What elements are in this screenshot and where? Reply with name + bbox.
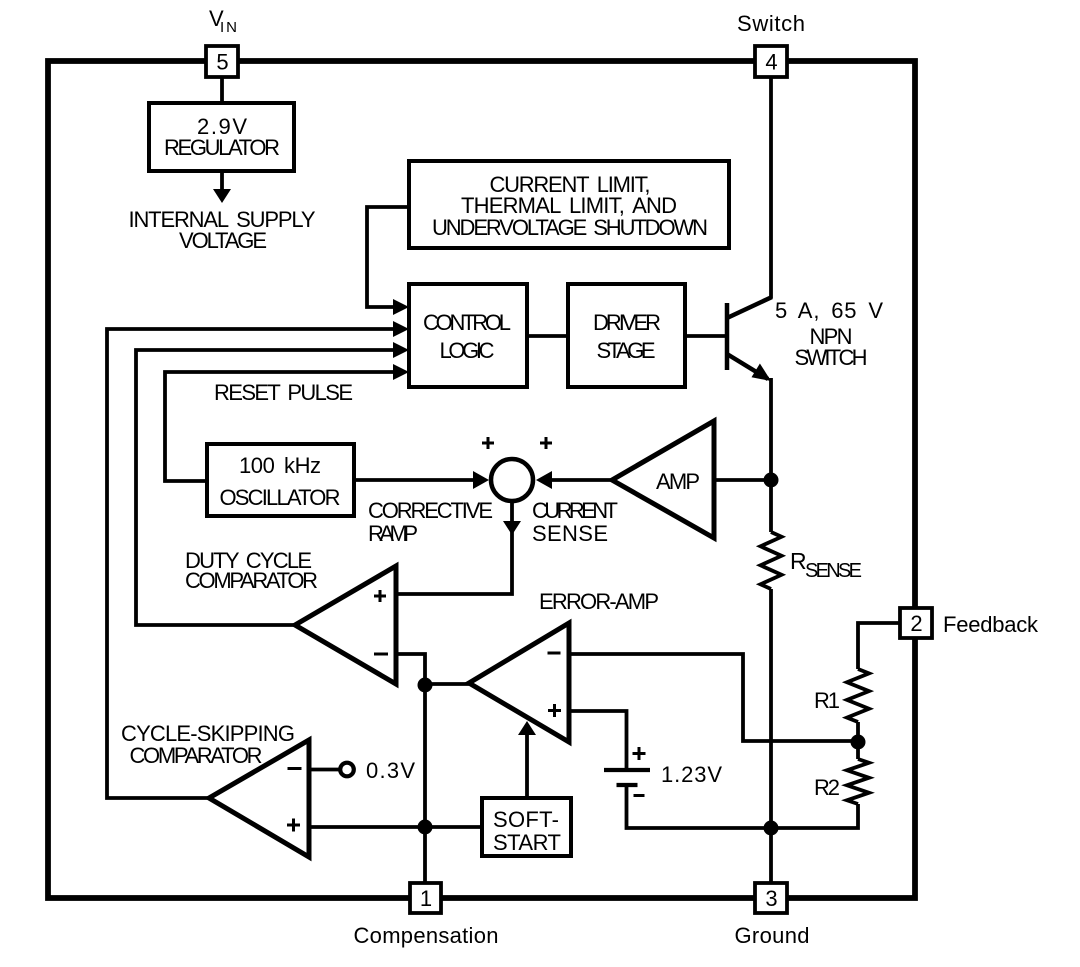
arrowhead into control logic 2 [393,321,409,337]
wire error-amp - input to R1 R2 node [569,654,858,741]
wire pin5 to regulator [220,77,224,103]
pin 2 Feedback box [900,608,932,638]
wire duty-cycle output to control logic arrow 3 [136,350,395,625]
resistor R2 zigzag [847,759,869,804]
transistor Q1 collector [727,297,772,318]
minus battery [634,794,645,797]
svg-text:SWITCH: SWITCH [795,345,868,370]
regulator U1 box [149,103,294,171]
wire control logic to driver stage [527,334,568,338]
svg-text:STAGE: STAGE [597,338,656,363]
wire oscillator to summing node [354,478,478,482]
svg-text:SENSE: SENSE [532,521,608,546]
wire cycle-skipping - input to 0.3V source [309,768,339,772]
op-amp error amp [469,623,569,742]
pin 5 VIN box [206,46,238,77]
svg-text:REGULATOR: REGULATOR [164,135,280,160]
transistor Q1 base bar [725,303,730,370]
wire node A down to pin1 [423,684,427,898]
svg-text:SENSE: SENSE [805,560,862,582]
oscillator box [207,444,354,516]
junction node amp-output/emitter [764,473,779,488]
junction node A error-amp output [418,678,433,693]
svg-text:COMPARATOR: COMPARATOR [185,568,318,593]
minus error-amp [548,652,561,655]
pin 4 Switch box [755,46,787,77]
op-amp AMP current sense amplifier [612,421,714,538]
svg-text:5: 5 [216,50,228,75]
transistor emitter arrowhead [752,364,772,382]
svg-text:START: START [493,830,561,855]
driver stage box [568,284,685,387]
wire battery minus to ground node [627,787,772,828]
wire error-amp + input to battery [569,711,627,768]
arrowhead oscillator into summing node [473,471,489,489]
summing node circle [491,459,533,501]
op-amp duty cycle comparator [295,566,396,684]
svg-text:4: 4 [765,50,777,75]
wire duty-cycle - input to node A [396,654,425,684]
battery 1.23V minus plate [617,783,638,787]
IC boundary border [48,61,915,898]
svg-text:SOFT-: SOFT- [493,807,559,832]
arrowhead amp into summing node [536,471,552,489]
svg-text:DRIVER: DRIVER [593,310,661,335]
svg-text:3: 3 [765,886,777,911]
current/thermal limit box [409,161,729,248]
svg-text:OSCILLATOR: OSCILLATOR [220,485,341,510]
junction node B feedback divider [851,735,866,750]
svg-text:Ground: Ground [735,923,810,948]
wire regulator to internal supply arrow [220,171,224,190]
wire emitter to amp-output node [769,378,773,480]
svg-text:Feedback: Feedback [943,612,1039,637]
svg-text:CURRENT: CURRENT [532,498,618,523]
svg-text:COMPARATOR: COMPARATOR [130,743,263,768]
wire cycle-skipping output to control logic arrow 2 [107,329,395,798]
svg-text:2: 2 [910,611,922,636]
svg-text:1.23V: 1.23V [661,762,722,787]
plus current sense input [540,442,552,445]
resistor R1 zigzag [847,669,869,722]
wire summing node down to duty-cycle + input [396,501,512,594]
svg-text:1: 1 [420,886,432,911]
svg-text:AMP: AMP [656,469,700,494]
svg-text:CONTROL: CONTROL [423,310,511,335]
plus error-amp [548,709,561,712]
wire pin2 to R1 top [858,623,900,669]
svg-text:100 kHz: 100 kHz [239,453,321,478]
junction node soft-start/compensation [418,820,433,835]
op-amp cycle-skipping comparator [209,740,309,857]
svg-text:UNDERVOLTAGE SHUTDOWN: UNDERVOLTAGE SHUTDOWN [432,215,708,240]
wire amp tip to summing node [544,478,612,482]
arrowhead into control logic 3 [393,342,409,358]
arrowhead soft-start up [518,721,536,735]
wire current-limit box to control logic arrow 1 [367,207,409,307]
control logic box [409,284,527,387]
plus cycle-skipping comparator [287,824,300,827]
0.3V terminal circle [340,763,354,777]
pin 3 Ground box [755,883,787,913]
pin 1 Compensation box [410,883,441,913]
minus duty-cycle comparator [374,653,388,656]
wire node A to error-amp tip [425,682,469,686]
svg-text:LOGIC: LOGIC [440,338,495,363]
resistor RSENSE zigzag [761,532,782,589]
arrowhead into control logic 4 [393,364,409,380]
wire amp output to node [714,478,771,482]
junction node ground [764,821,779,836]
svg-text:R1: R1 [814,688,840,713]
wire pin4 to collector [769,77,773,298]
wire R1 bottom to node B [856,722,860,759]
wire soft-start up arrow [525,733,529,798]
wire R2 bottom to ground node [771,804,858,828]
svg-text:0.3V: 0.3V [366,758,415,783]
minus cycle-skipping comparator [288,767,302,770]
svg-text:Compensation: Compensation [354,923,499,948]
arrowhead internal supply voltage [213,189,231,203]
battery 1.23V plus plate [604,768,650,772]
soft-start box [482,798,571,856]
svg-text:IN: IN [220,19,237,36]
svg-text:RAMP: RAMP [368,521,418,546]
svg-text:ERROR-AMP: ERROR-AMP [539,589,659,614]
wire driver stage to transistor base [685,334,725,338]
transistor Q1 emitter [727,354,768,379]
svg-text:CORRECTIVE: CORRECTIVE [368,498,493,523]
wire oscillator net to control logic arrow 4 [165,372,395,481]
wire Rsense bottom to pin3 [769,589,773,898]
svg-text:RESET PULSE: RESET PULSE [214,380,353,405]
svg-text:5 A, 65 V: 5 A, 65 V [775,298,883,323]
svg-text:VOLTAGE: VOLTAGE [179,228,267,253]
arrowhead into control logic 1 [393,299,409,315]
plus duty-cycle comparator [374,595,386,598]
plus corrective ramp input [482,442,494,445]
svg-text:Switch: Switch [737,11,805,36]
plus battery [633,752,646,755]
svg-text:R2: R2 [814,775,840,800]
wire node to Rsense top [769,480,773,532]
wire cycle-skipping + input to soft-start [309,825,482,829]
arrowhead current sense down [503,521,521,535]
